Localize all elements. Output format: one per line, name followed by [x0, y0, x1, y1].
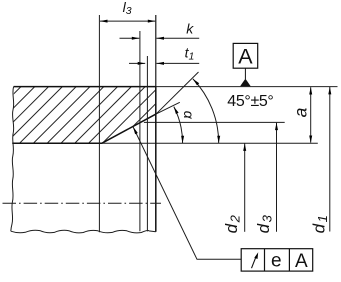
svg-text:k: k: [186, 21, 194, 37]
l3 extension line: [98, 15, 100, 232]
svg-text:45°±5°: 45°±5°: [227, 93, 273, 110]
dimension d1 line: [329, 87, 331, 232]
flank construction extension (thin): [156, 102, 179, 114]
dimension l3 line: [100, 20, 155, 22]
bore line thin extension to the right: [102, 142, 318, 144]
bore line (thick contour): [12, 142, 102, 144]
45 deg chamfer construction line: [156, 72, 198, 114]
datum A box: [233, 43, 258, 68]
leader line from flank to frame: [133, 127, 241, 259]
flank line (thick contour, angle alpha): [102, 114, 156, 143]
groove edge vertical line 2 (t1 extension): [146, 56, 148, 231]
dimension d2 line: [244, 144, 246, 232]
svg-text:A: A: [238, 45, 253, 69]
left break (wavy) edge: [11, 87, 14, 232]
datum triangle: [240, 79, 251, 87]
bottom break (wavy) line: [11, 230, 156, 233]
dimension a line: [310, 87, 312, 142]
svg-text:A: A: [295, 251, 308, 272]
45 deg angle arc: [193, 79, 219, 143]
dimension k lines: [120, 37, 140, 39]
dimension d3 line: [276, 123, 278, 232]
datum stem: [244, 68, 246, 79]
centerline (axis, dash-dot): [3, 202, 162, 204]
top surface (outer) contour line: [14, 86, 156, 88]
groove bottom extension line (d3 level): [144, 121, 285, 123]
groove edge vertical line 1 (k extension): [139, 31, 141, 231]
alpha angle arc: [174, 107, 183, 144]
top surface extension / datum line to the right: [156, 86, 338, 88]
feature control frame box: [241, 249, 313, 271]
dimension t1 lines: [129, 62, 145, 64]
svg-text:e: e: [271, 251, 282, 272]
runout symbol: [252, 256, 257, 268]
end face vertical (thick contour + extension above): [155, 15, 157, 87]
svg-text:α: α: [181, 111, 197, 120]
svg-text:a: a: [291, 107, 311, 117]
